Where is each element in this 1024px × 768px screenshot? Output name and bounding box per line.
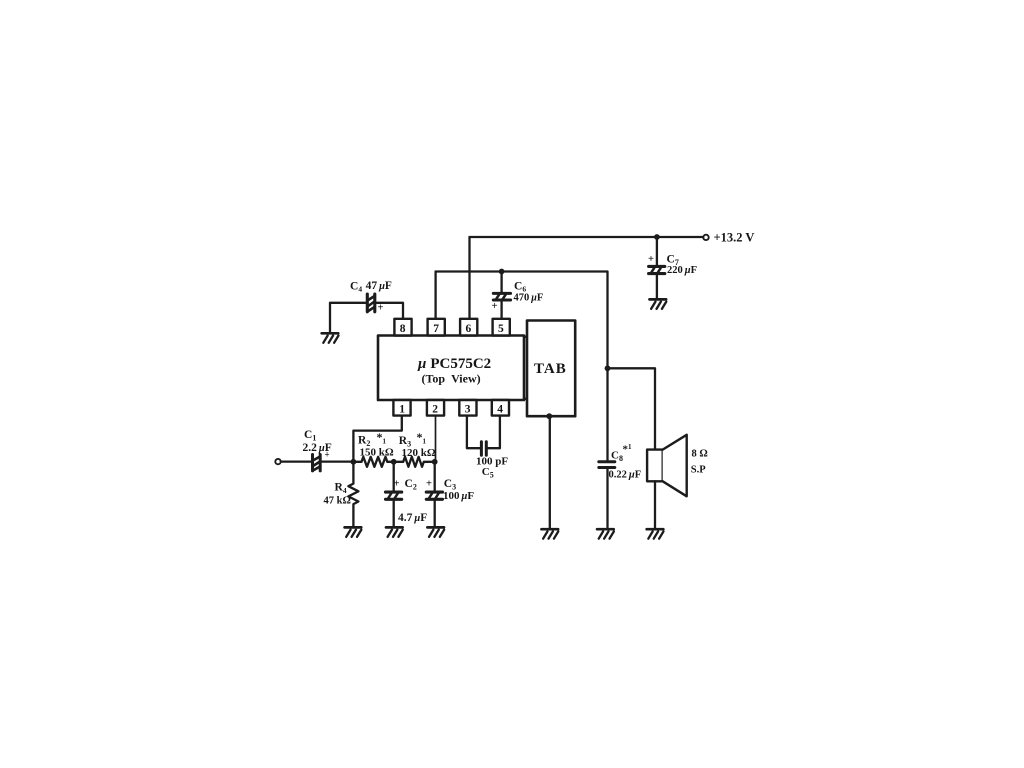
capacitor C5 100pF (film, between pin3 and pin4) — [476, 442, 508, 480]
svg-text:6: 6 — [466, 323, 472, 335]
pin 8 — [394, 319, 411, 336]
node supply/C7 — [654, 234, 660, 240]
wire C4 to pin8 — [377, 303, 404, 319]
wire pin6 up to supply rail — [468, 237, 470, 319]
svg-text:150 kΩ: 150 kΩ — [360, 447, 394, 459]
node B (junction R2/R3/C2) — [391, 459, 397, 465]
svg-text:+: + — [648, 254, 654, 265]
wire pin1 down-left to node A — [353, 416, 401, 462]
resistor R3 120k (horizontal) — [394, 430, 436, 467]
capacitor C7 220uF (electrolytic to ground) — [648, 237, 697, 299]
svg-text:2.2μF: 2.2μF — [303, 442, 332, 454]
capacitor C8 0.22uF (film, to ground) — [599, 368, 641, 527]
wire bus y271 (pin7 to right, down at x607.5) — [436, 272, 608, 369]
resistor R2 150k (horizontal) — [353, 430, 393, 467]
svg-text:C5: C5 — [482, 466, 494, 480]
node C (junction R3/C3/pin2) — [432, 459, 438, 465]
svg-text:47 kΩ: 47 kΩ — [324, 495, 351, 506]
resistor R4 47k (vertical) — [324, 462, 359, 527]
svg-text:8 Ω: 8 Ω — [692, 448, 708, 459]
svg-text:*1: *1 — [417, 430, 427, 446]
pin 7 — [428, 319, 445, 336]
ground under speaker — [647, 529, 664, 539]
svg-text:7: 7 — [433, 323, 439, 335]
capacitor C2 4.7uF (electrolytic to ground) — [386, 462, 428, 527]
wire output node to speaker — [608, 368, 656, 449]
wire ground up-right to C4 — [330, 303, 366, 334]
node output (x607.5) — [605, 365, 611, 371]
wire IC to TAB (top) — [524, 336, 527, 338]
svg-text:0.22μF: 0.22μF — [609, 470, 642, 481]
wire C5 to pin4 — [488, 416, 500, 449]
pin 3 — [459, 400, 476, 416]
svg-text:*1: *1 — [623, 443, 633, 456]
ground under C2 — [386, 527, 403, 537]
svg-text:+: + — [426, 478, 432, 489]
svg-text:220μF: 220μF — [667, 265, 697, 276]
svg-text:+: + — [394, 478, 400, 489]
wire pin7 up to bus — [434, 272, 436, 319]
ground under C7 — [650, 299, 667, 309]
TAB block — [527, 321, 575, 417]
IC U1 uPC575C2 body — [378, 336, 524, 401]
capacitor C1 2.2uF (electrolytic, vertical plates) — [303, 429, 332, 471]
node TAB bottom — [546, 413, 552, 419]
svg-text:S.P: S.P — [691, 464, 706, 475]
svg-text:3: 3 — [465, 404, 471, 416]
capacitor C4 47uF (electrolytic, vertical plates) — [350, 280, 392, 314]
svg-text:C447μF: C447μF — [350, 280, 392, 294]
svg-text:(Top View): (Top View) — [422, 371, 481, 385]
svg-text:8: 8 — [400, 323, 406, 335]
ground under C8 — [597, 529, 614, 539]
node on bus at C6 — [499, 269, 505, 275]
svg-text:4: 4 — [497, 404, 503, 416]
svg-text:C1: C1 — [304, 429, 316, 443]
svg-text:4.7μF: 4.7μF — [398, 512, 427, 524]
wire pin3 to C5 — [467, 416, 480, 449]
wire pin2 down to node C — [435, 416, 437, 462]
svg-text:5: 5 — [498, 323, 504, 335]
speaker SP 8ohm — [647, 435, 708, 497]
ground under R4 — [345, 527, 362, 537]
svg-text:+: + — [492, 301, 498, 312]
pin 1 — [393, 400, 410, 416]
svg-text:TAB: TAB — [534, 361, 567, 377]
wire input to C1 — [281, 460, 311, 462]
ground under TAB — [542, 529, 559, 539]
svg-text:R4: R4 — [335, 482, 347, 496]
input terminal — [275, 459, 280, 464]
svg-text:1: 1 — [399, 404, 405, 416]
wire C1 to node A — [322, 460, 353, 462]
pin 2 — [427, 400, 444, 416]
power terminal +13.2V — [703, 231, 754, 245]
svg-text:470μF: 470μF — [514, 293, 544, 304]
svg-text:C8: C8 — [611, 450, 623, 464]
pin 6 — [460, 319, 477, 336]
node A (junction C1/R4/R2) — [351, 459, 357, 465]
supply rail wire to terminal — [470, 236, 704, 238]
capacitor C3 100uF (electrolytic to ground) — [426, 462, 474, 527]
svg-text:C2: C2 — [405, 478, 417, 492]
wire speaker to ground — [654, 481, 656, 529]
capacitor C6 470uF (electrolytic, in pin5 branch) — [492, 272, 544, 319]
svg-text:120 kΩ: 120 kΩ — [402, 447, 436, 459]
pin 5 — [493, 319, 510, 336]
svg-text:+: + — [378, 303, 384, 314]
wire TAB to ground — [549, 416, 551, 529]
svg-text:*1: *1 — [377, 430, 387, 446]
svg-text:+13.2 V: +13.2 V — [714, 231, 755, 245]
wire IC to TAB (bottom) — [524, 398, 527, 400]
ground under C3 — [427, 527, 444, 537]
ground left of C4 — [322, 333, 339, 343]
svg-text:100μF: 100μF — [443, 490, 474, 502]
pin 4 — [492, 400, 509, 416]
svg-text:2: 2 — [432, 404, 438, 416]
